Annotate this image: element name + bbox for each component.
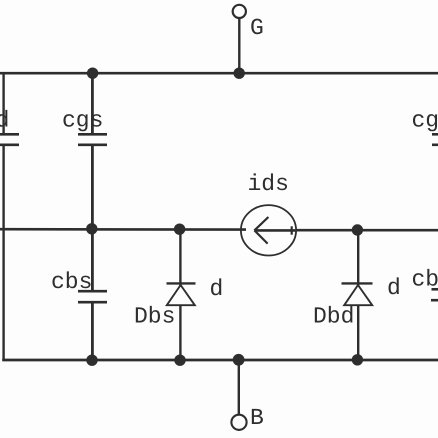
node junction middle at Dbd	[352, 224, 363, 235]
wire middle horizontal rail left of ids	[0, 228, 246, 231]
node junction top at cgs	[87, 68, 98, 79]
svg-text:cgs: cgs	[62, 108, 103, 134]
terminal G circle	[233, 5, 246, 18]
wire left edge vertical lower	[2, 146, 4, 360]
wire cbs upper vertical	[91, 229, 94, 291]
svg-text:d: d	[387, 275, 401, 301]
wire cbs lower vertical	[91, 303, 94, 360]
svg-text:cgd: cgd	[412, 108, 438, 134]
svg-text:cbs: cbs	[51, 269, 92, 295]
diode Dbs cathode bar	[167, 282, 196, 284]
capacitor cgd (right edge, cut off)	[432, 134, 438, 145]
wire left edge vertical upper	[2, 72, 4, 134]
terminal B circle	[231, 415, 246, 430]
svg-text:Dbd: Dbd	[313, 304, 354, 330]
wire Dbs lower vertical	[179, 306, 181, 361]
svg-text:B: B	[250, 405, 264, 431]
wire B stub vertical	[238, 360, 240, 415]
wire G stub vertical	[238, 18, 240, 73]
capacitor cbs	[78, 291, 107, 302]
svg-text:cgd: cgd	[0, 108, 9, 134]
wire Dbd upper vertical	[357, 230, 359, 286]
node junction middle at Dbs	[174, 224, 185, 235]
svg-text:ids: ids	[248, 171, 289, 197]
wire Dbd lower vertical	[357, 306, 359, 361]
svg-text:d: d	[210, 276, 224, 302]
current source ids tail tick	[291, 226, 293, 234]
capacitor cgs	[78, 134, 107, 145]
diode Dbs triangle	[167, 285, 195, 305]
wire bottom horizontal B rail	[2, 359, 438, 362]
capacitor cgd (left edge, cut off)	[0, 134, 19, 145]
wire cgs lower vertical	[91, 146, 94, 229]
node junction bottom at cbs	[86, 355, 97, 366]
wire top horizontal G rail	[0, 72, 438, 75]
current source ids arrow upper barb	[254, 217, 268, 230]
svg-text:Dbs: Dbs	[134, 304, 175, 330]
node junction middle at cgs/cbs	[86, 223, 97, 234]
wire middle horizontal rail right of ids	[296, 229, 438, 232]
node junction bottom at B	[233, 354, 245, 366]
node junction bottom at Dbs	[174, 355, 185, 366]
current source ids circle	[241, 205, 296, 255]
node junction bottom at Dbd	[352, 354, 363, 365]
svg-text:G: G	[250, 15, 264, 41]
wire cgs upper vertical	[91, 73, 94, 134]
diode Dbd cathode bar	[342, 282, 373, 284]
wire Dbs upper vertical	[179, 229, 181, 286]
current source ids arrow shaft	[254, 229, 295, 232]
node junction top at G	[234, 68, 245, 79]
current source ids arrow lower barb	[254, 230, 267, 243]
diode Dbd triangle	[344, 285, 372, 305]
capacitor cbd (right edge, cut off)	[431, 289, 438, 300]
